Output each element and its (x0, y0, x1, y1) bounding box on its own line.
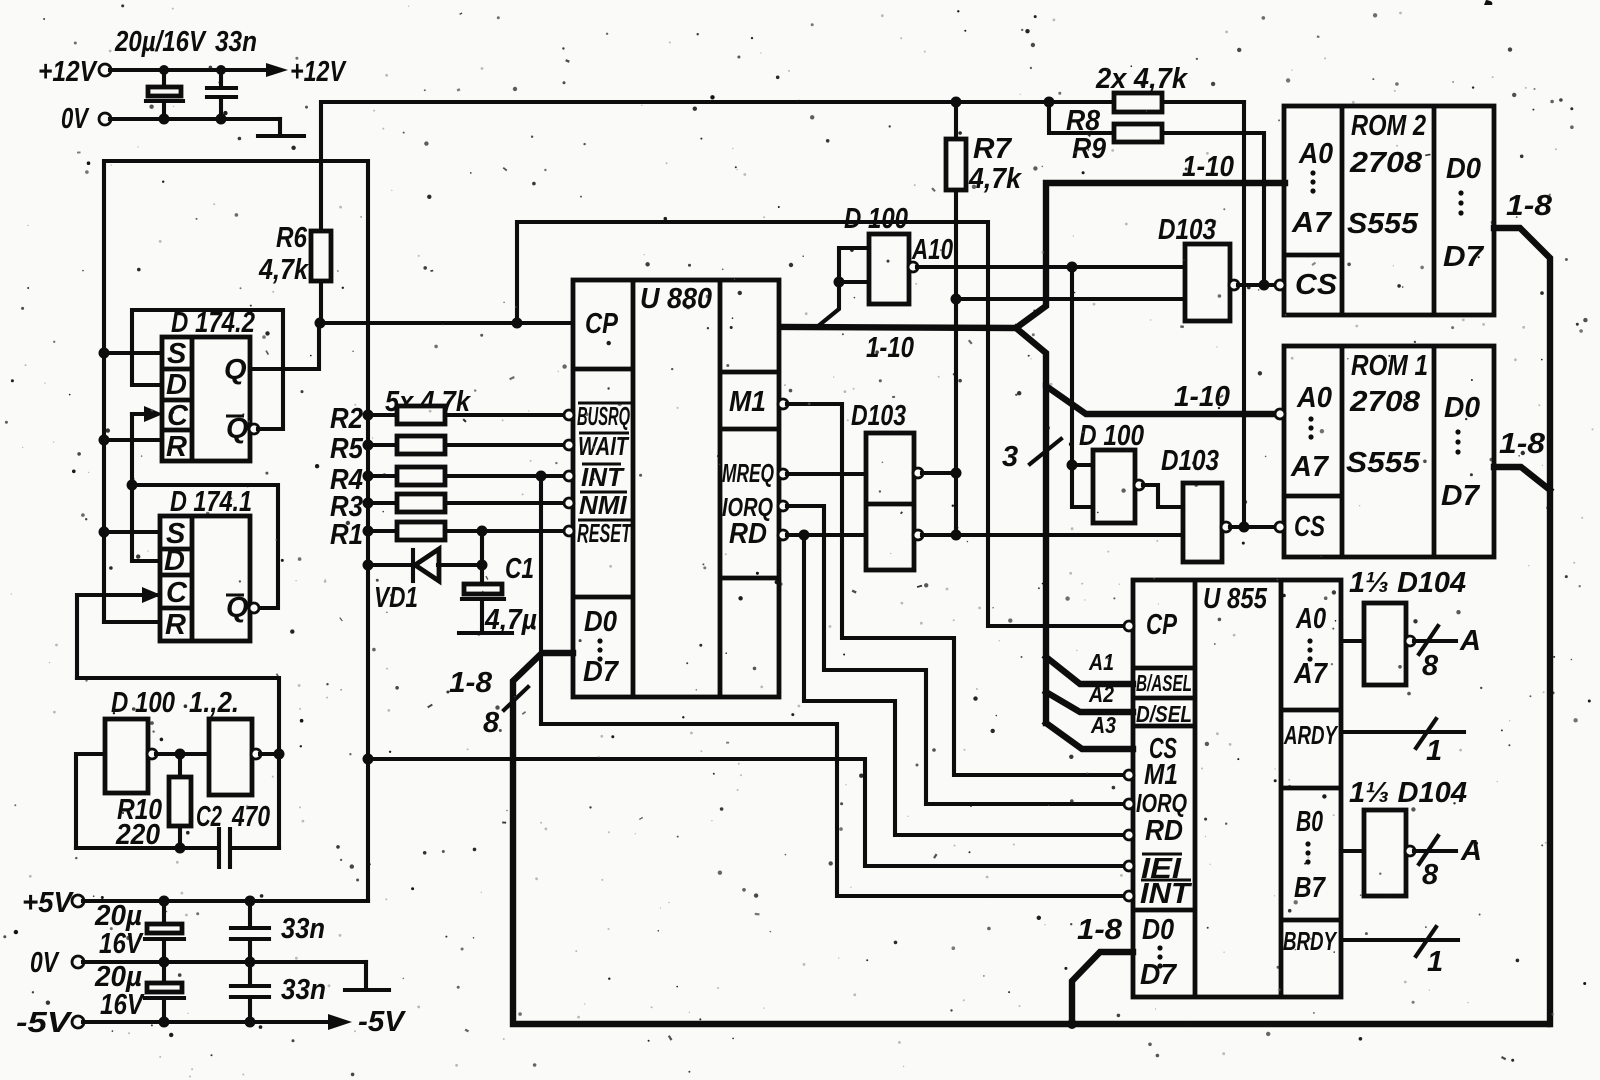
wire clock branch to U855 CP (517, 222, 1125, 626)
node: RD branch junction (799, 530, 810, 541)
resistor R1 (RESET pull-up) (330, 519, 565, 551)
wire R FF2 (104, 620, 160, 624)
pin bubble U855 RD (1124, 830, 1134, 840)
svg-text:C: C (167, 400, 189, 432)
svg-text:RD: RD (729, 518, 767, 550)
svg-text:D0: D0 (1444, 392, 1480, 424)
pin bubble WAIT (564, 440, 574, 450)
buffer D104 (port B) (1341, 777, 1482, 896)
wire BRDY (1341, 927, 1458, 978)
node: data bus branch (1067, 1019, 1077, 1029)
node: FF2 Q̄ feedback junction (127, 480, 138, 491)
svg-text:A2: A2 (1088, 681, 1114, 707)
node: R10/C2 bottom junction (175, 843, 186, 854)
label 1-8 at ROM2 (1506, 190, 1553, 222)
svg-text:D103: D103 (851, 400, 906, 432)
pin bubble U855 M1 (1124, 770, 1134, 780)
wire S FF1 (104, 351, 162, 355)
gate D103.1 (left, MREQ/RD) (851, 400, 923, 570)
node: +12V/33n junction (216, 65, 226, 75)
svg-text:ROM 1: ROM 1 (1351, 350, 1428, 382)
svg-text:20µ/16V: 20µ/16V (114, 26, 207, 58)
ground (top 0V) (258, 119, 304, 136)
svg-text:M1: M1 (1144, 759, 1178, 791)
resistor R5 (WAIT pull-up) (330, 433, 565, 465)
bus A1-A3 vertical (1043, 386, 1049, 723)
svg-text:D: D (166, 369, 187, 401)
pin bubble ROM1 CS (1275, 522, 1285, 532)
PIO U855 (1133, 580, 1341, 997)
pin bubble INT (564, 471, 574, 481)
wire clock line to U880 CP (320, 321, 573, 325)
wire MREQ to D103 (787, 472, 866, 476)
pin bubble IORQ (778, 501, 788, 511)
svg-text:D 100: D 100 (1079, 420, 1144, 452)
oscillator D100 1.,2. label (111, 687, 239, 719)
svg-text:1-8: 1-8 (1506, 190, 1553, 222)
node: clock node (R6/Q) (315, 318, 326, 329)
pin bubble ROM2 CS (1275, 280, 1285, 290)
label 1-10 (at ROM2) (1182, 151, 1234, 183)
wire RD U880 to U855 (804, 535, 1125, 835)
node: +5V/VD1 junction (363, 560, 374, 571)
svg-text:2708: 2708 (1349, 147, 1423, 179)
+12V input terminal (38, 56, 111, 88)
wire IORQ U880 to U855 (787, 506, 1125, 804)
capacitor 33n (+5V) (231, 901, 325, 962)
svg-text:4,7k: 4,7k (968, 163, 1023, 195)
pin bubble U855 INT (1124, 891, 1134, 901)
node: +5V bus / R FF1 (99, 435, 110, 446)
svg-text:33n: 33n (215, 26, 257, 58)
gate D103.3 (lower right, ROM1 CS) (1161, 445, 1231, 562)
wire Q̄ FF1 to D FF1 feedback (132, 310, 283, 434)
svg-text:33n: 33n (281, 974, 326, 1006)
label 1-8 at ROM1 (1499, 428, 1546, 460)
label 1-8 at U855 (1077, 914, 1123, 946)
svg-text:R6: R6 (276, 222, 308, 254)
wire +12V rail top (110, 68, 266, 72)
wire R FF1 (104, 438, 162, 442)
node: 0V/33n junction (216, 114, 227, 125)
wire +5V rail bottom (83, 899, 368, 903)
svg-text:A: A (1459, 625, 1481, 657)
svg-text:A3: A3 (1090, 712, 1116, 738)
svg-text:1: 1 (1426, 735, 1442, 767)
bus A1 to B/ASEL (1046, 649, 1133, 684)
svg-text:2x 4,7k: 2x 4,7k (1095, 63, 1189, 95)
svg-text:4,7µ: 4,7µ (484, 604, 537, 636)
capacitor 33n (top) (207, 26, 257, 119)
wire 0V rail bottom (83, 960, 366, 964)
svg-text:R: R (166, 431, 187, 463)
svg-text:16V: 16V (99, 928, 144, 960)
svg-text:0V: 0V (30, 947, 60, 979)
flip-flop D174.2 (162, 307, 255, 463)
pin bubble MREQ (778, 469, 788, 479)
bus 1-10 down branch (1016, 328, 1275, 414)
svg-text:R5: R5 (330, 433, 364, 465)
label 5x 4,7k (385, 386, 472, 418)
svg-text:Q: Q (224, 354, 247, 386)
wire Q̄ FF2 feedback loop (132, 485, 278, 608)
wire D103.2 out to ROM2 CS (1238, 283, 1276, 287)
pin bubble BUSRQ (564, 410, 574, 420)
svg-text:MREQ: MREQ (722, 458, 774, 488)
+5V input terminal (22, 887, 84, 919)
node: 0V/C elec junction (159, 114, 170, 125)
wire A10 tap from bus (817, 282, 839, 327)
svg-text:B0: B0 (1296, 806, 1323, 838)
svg-text:A0: A0 (1296, 382, 1332, 414)
svg-text:R: R (165, 609, 186, 641)
-5V input terminal (16, 1007, 84, 1039)
capacitor C1 4,7µ (459, 553, 537, 636)
svg-text:NMI: NMI (579, 490, 627, 520)
node: -5V/Celec junction (159, 1017, 170, 1028)
label 1-10 (at ROM1) (1174, 381, 1230, 413)
wire +5V bus (left rectangle) (104, 161, 368, 901)
flip-flop D174.1 (160, 486, 259, 641)
capacitor 20µ/16V (top) (114, 26, 207, 119)
svg-text:8: 8 (483, 707, 500, 739)
svg-text:D 100: D 100 (111, 687, 175, 719)
resistor R6 4,7k (258, 222, 331, 321)
resistor R3 (NMI pull-up) (330, 491, 565, 523)
svg-text:S555: S555 (1346, 447, 1421, 479)
wire C FF2 from oscillator with arrow (77, 587, 161, 678)
pin bubble M1 (778, 399, 788, 409)
svg-text:R7: R7 (973, 133, 1013, 165)
svg-text:D0: D0 (1142, 914, 1174, 946)
svg-text:RESET: RESET (577, 518, 632, 548)
label 1-10 (left) (866, 332, 914, 364)
svg-text:B7: B7 (1294, 872, 1327, 904)
svg-text:8: 8 (1422, 859, 1439, 891)
svg-text:ARDY: ARDY (1283, 720, 1339, 750)
wire D103 out (RD gate) to D103 right (922, 533, 1183, 537)
svg-text:-5V: -5V (16, 1007, 73, 1039)
svg-text:3: 3 (1002, 441, 1018, 473)
svg-text:1-8: 1-8 (1077, 914, 1123, 946)
inverter D100.2 (209, 719, 261, 795)
svg-text:BRDY: BRDY (1283, 926, 1338, 956)
svg-text:A7: A7 (1293, 658, 1329, 690)
wire A10 gate inputs (839, 248, 869, 282)
label 1-8 / 8 at U880 (449, 667, 528, 739)
node: A10 line branch (1067, 262, 1078, 273)
svg-text:VD1: VD1 (374, 582, 418, 614)
bus 1-8 data (U880 to bottom) (513, 653, 1548, 1024)
svg-text:Q: Q (226, 592, 249, 624)
gate D103.2 (upper right, ROM2 CS) (1158, 214, 1239, 321)
node: -5V/33n junction (245, 1017, 256, 1028)
node: oscillator node B (274, 749, 285, 760)
resistor R7 4,7k (946, 97, 1023, 536)
svg-text:RD: RD (1145, 815, 1183, 847)
node: clock branch junction (512, 318, 523, 329)
svg-text:1.,2.: 1.,2. (189, 687, 239, 719)
capacitor 33n (-5V) (231, 962, 326, 1022)
pin bubble U855 IEI (1124, 861, 1134, 871)
svg-text:1: 1 (1427, 946, 1443, 978)
bus 1-8 branch to U855 D0-D7 (1072, 952, 1133, 1024)
pin bubble U855 CP (1124, 621, 1134, 631)
svg-text:C: C (166, 577, 188, 609)
bus 1-8 ROM1 data branch (1494, 467, 1550, 490)
resistor R4 (INT pull-up) (330, 464, 565, 496)
pin bubble RD (778, 530, 788, 540)
node: +5V/33n junction (245, 896, 256, 907)
wire oscillator bottom (76, 846, 279, 850)
wire INV1 input (76, 754, 105, 848)
node: R7/CS line junction (951, 294, 962, 305)
svg-text:1⅓ D104: 1⅓ D104 (1349, 567, 1466, 599)
node: INT line junction (536, 471, 547, 482)
node: R8/ROM1 CS junction (1239, 522, 1250, 533)
wire D100 out to D103.3 (1143, 485, 1183, 507)
wire R7 net to D103 upper right (956, 297, 1185, 301)
svg-text:D103: D103 (1161, 445, 1219, 477)
ROM 2 2708 S555 (1284, 106, 1494, 315)
0V input terminal (top) (61, 103, 111, 135)
pin bubble U855 IORQ (1124, 799, 1134, 809)
node: VD1/C1 junction (477, 560, 488, 571)
svg-text:+5V: +5V (22, 887, 75, 919)
wire IEI from +5V to U855 (363, 754, 1126, 867)
node: +5V/Celec junction (159, 896, 170, 907)
svg-text:+12V: +12V (38, 56, 98, 88)
buffer D104 (port A) (1341, 567, 1481, 685)
svg-text:A7: A7 (1291, 207, 1333, 239)
node: R9/ROM2 CS junction (1259, 280, 1270, 291)
wire D103 out (MREQ gate) to R7 net (922, 471, 956, 475)
node: RESET line junction (477, 526, 488, 537)
svg-text:A0: A0 (1295, 603, 1326, 635)
wire D FF2 from feedback (132, 485, 160, 561)
svg-text:D0: D0 (1446, 153, 1481, 185)
capacitor 20µ 16V (-5V) (94, 961, 184, 1022)
bus A2 to D/SEL (1046, 681, 1133, 712)
svg-text:C2: C2 (196, 801, 222, 833)
wire A10 inverted line (917, 265, 1185, 269)
resistor R2 (BUSRQ pull-up) (330, 403, 565, 435)
svg-text:D0: D0 (584, 606, 617, 638)
svg-text:A: A (1460, 835, 1482, 867)
svg-text:WAIT: WAIT (578, 431, 630, 461)
svg-text:8: 8 (1422, 650, 1439, 682)
svg-text:A1: A1 (1088, 649, 1114, 675)
ROM 1 2708 S555 (1284, 346, 1494, 557)
svg-text:D: D (164, 545, 185, 577)
svg-text:33n: 33n (281, 913, 325, 945)
wire 0V rail top (110, 117, 280, 121)
ground (bottom 0V) (345, 962, 389, 990)
node: 0V/33n junction (245, 957, 256, 968)
wire M1 U880 to U855 (787, 404, 1125, 775)
svg-text:IORQ: IORQ (1136, 788, 1187, 818)
node: R7/D103 lower junction (951, 530, 962, 541)
0V input terminal (bottom) (30, 947, 84, 979)
svg-text:470: 470 (231, 801, 270, 833)
svg-text:1-10: 1-10 (866, 332, 914, 364)
svg-text:CS: CS (1295, 269, 1338, 301)
node: +12V/C elec junction (159, 65, 169, 75)
arrow to -5V (328, 1006, 407, 1038)
svg-text:A7: A7 (1290, 451, 1330, 483)
svg-text:U 855: U 855 (1203, 583, 1268, 615)
capacitor 20µ 16V (+5V) (94, 900, 184, 962)
diode VD1 (368, 549, 482, 614)
wire Q FF1 to clock node (250, 323, 319, 369)
wire A10 to D100 lower inputs (1072, 267, 1093, 507)
svg-text:D 174.1: D 174.1 (170, 486, 252, 518)
svg-text:D103: D103 (1158, 214, 1216, 246)
svg-text:D7: D7 (1441, 480, 1481, 512)
wire oscillator top (INV2 out to C FF2) (77, 678, 279, 848)
svg-text:Q: Q (226, 413, 249, 445)
svg-text:A0: A0 (1298, 138, 1333, 170)
pin bubble ROM1 A0-A7 (1275, 409, 1285, 419)
svg-text:B/ASEL: B/ASEL (1136, 670, 1192, 696)
node: D100 input junction (1067, 460, 1078, 471)
svg-text:1-8: 1-8 (1499, 428, 1546, 460)
bus 1-8 right vertical (ROM data) (1494, 228, 1550, 1024)
svg-text:0V: 0V (61, 103, 90, 135)
label 3 with slash (1002, 439, 1061, 473)
wire ARDY (1341, 719, 1464, 767)
svg-text:D/SEL: D/SEL (1136, 701, 1192, 727)
inverter D100.1 (105, 719, 157, 793)
svg-text:1-8: 1-8 (449, 667, 493, 699)
bus 1-10 address from U880 (781, 183, 1285, 328)
wire -5V rail (83, 1020, 330, 1024)
svg-text:M1: M1 (729, 386, 766, 418)
resistor R10 220 (115, 754, 191, 851)
svg-text:CS: CS (1294, 511, 1325, 543)
wire S FF2 (104, 530, 160, 534)
gate D100 (lower) (1079, 420, 1144, 523)
wire C FF1 clock input with arrow (132, 406, 163, 485)
svg-text:1⅓ D104: 1⅓ D104 (1349, 777, 1467, 809)
wire RD to D103 (787, 533, 866, 537)
svg-text:CP: CP (1146, 609, 1177, 641)
svg-text:A10: A10 (911, 234, 953, 266)
svg-text:1-10: 1-10 (1182, 151, 1234, 183)
svg-text:D 100: D 100 (844, 203, 908, 235)
svg-text:4,7k: 4,7k (258, 254, 309, 286)
svg-text:BUSRQ: BUSRQ (577, 401, 630, 431)
node: +5V bus / S FF2 (99, 527, 110, 538)
svg-text:INT: INT (581, 462, 625, 492)
svg-text:CP: CP (585, 308, 619, 340)
svg-text:16V: 16V (100, 989, 145, 1021)
svg-text:S: S (167, 338, 187, 370)
arrow to +12V (266, 56, 347, 88)
label 2x 4,7k (1095, 63, 1189, 95)
wire +12V distribution rail (321, 102, 1244, 231)
node: R7/D103 upper junction (951, 468, 962, 479)
wire node A (INV1 out - INV2 in) (156, 752, 209, 756)
svg-text:2708: 2708 (1349, 386, 1421, 418)
resistor R8 (1044, 93, 1245, 527)
wire RESET to VD1/C1 node (480, 531, 484, 565)
gate D100 (A10 inverter) (844, 203, 953, 304)
pin bubble NMI (564, 498, 574, 508)
svg-text:R2: R2 (330, 403, 363, 435)
pin bubble RESET (564, 526, 574, 536)
node: oscillator node A (175, 749, 186, 760)
node: +5V bus / S FF1 (99, 348, 110, 359)
svg-text:+12V: +12V (290, 56, 347, 88)
node: A10 gate input junction (834, 277, 845, 288)
svg-text:U 880: U 880 (640, 283, 712, 315)
capacitor C2 470 (196, 801, 270, 867)
svg-text:-5V: -5V (358, 1006, 407, 1038)
wire INV2 output to node B (260, 752, 279, 756)
svg-text:C1: C1 (505, 553, 534, 585)
svg-text:R9: R9 (1072, 133, 1106, 165)
svg-text:S555: S555 (1347, 208, 1419, 240)
resistor R9 (1049, 102, 1264, 284)
svg-text:ROM 2: ROM 2 (1351, 110, 1426, 142)
node: 0V/Celec junction (159, 957, 170, 968)
CPU U880 (573, 280, 779, 697)
svg-text:INT: INT (1140, 878, 1192, 910)
wire D103.3 out to ROM1 CS (1230, 525, 1276, 529)
wire INT U880 to U855 (541, 476, 1125, 896)
bus A3 to CS (1046, 712, 1133, 749)
